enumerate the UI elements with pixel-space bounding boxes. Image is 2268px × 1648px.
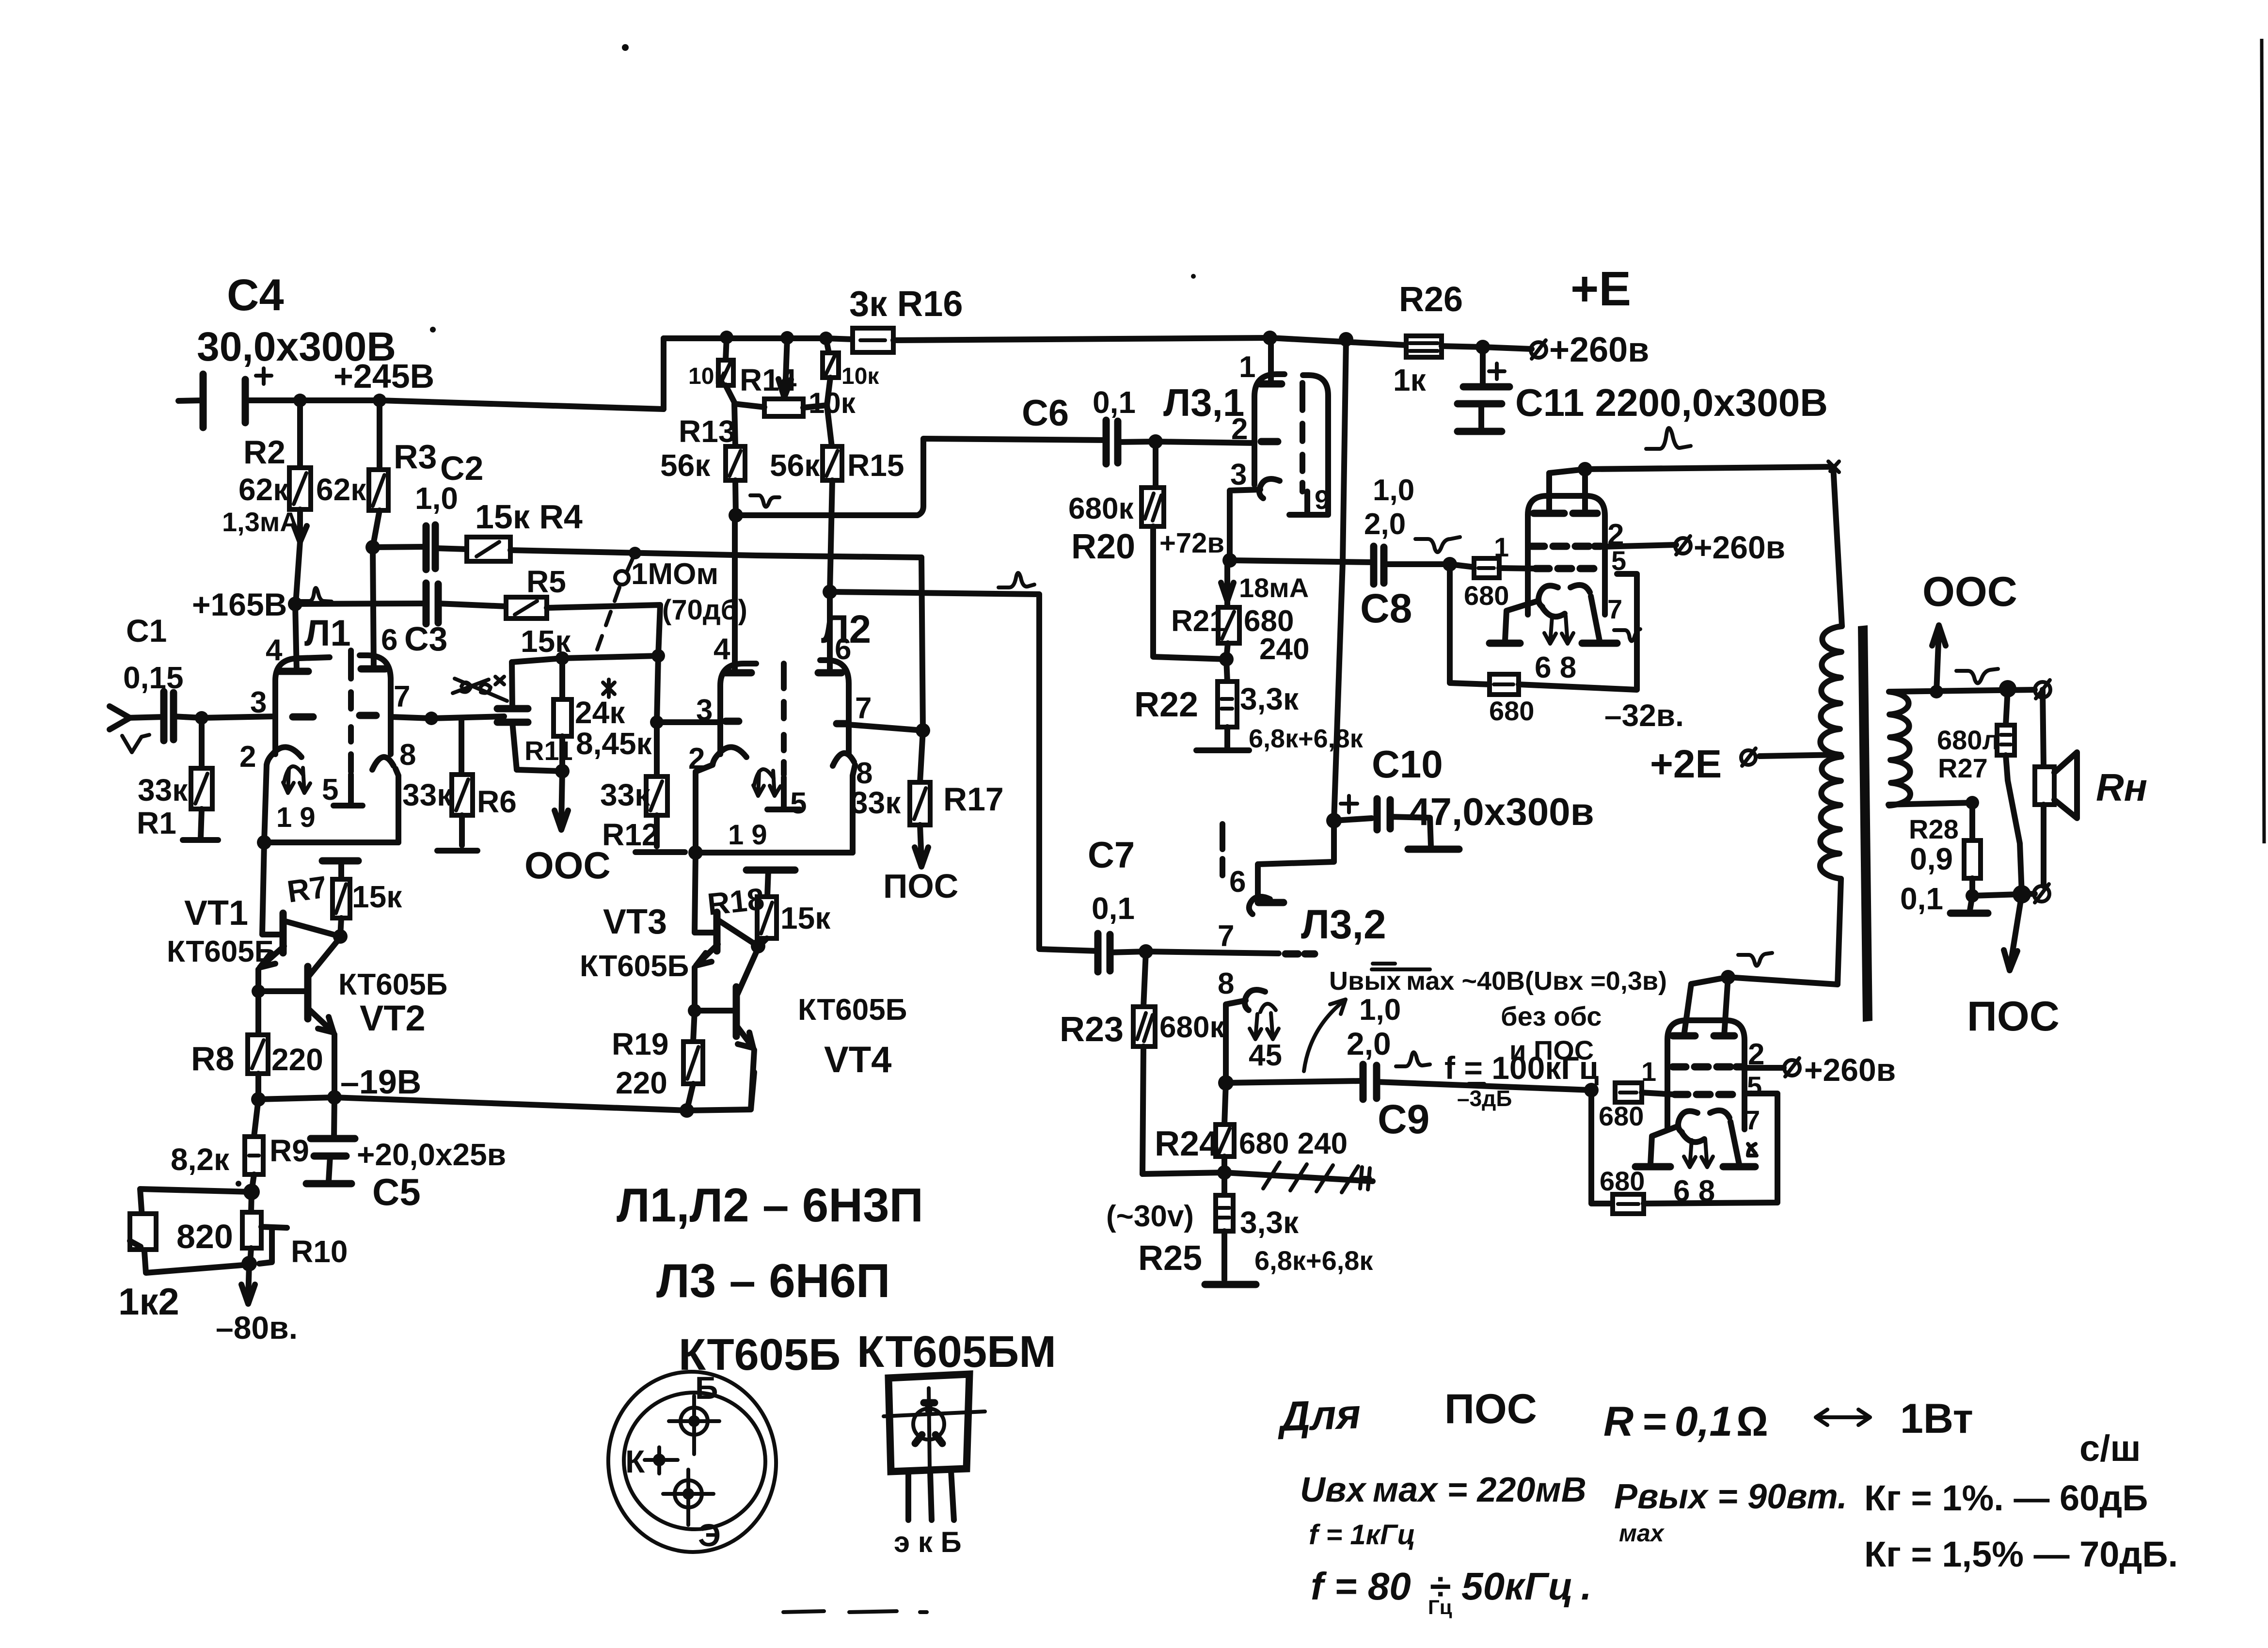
resistor R28 0,9/0,1 — [1900, 803, 1988, 916]
tube L1 cathode pin2 hook — [267, 747, 301, 765]
svg-text:Л3,2: Л3,2 — [1301, 902, 1386, 947]
output tube 2 screen grid dashed — [1673, 1063, 1742, 1071]
svg-text:э к Б: э к Б — [894, 1526, 962, 1558]
tube L1 anode plate pin6 — [361, 666, 385, 673]
node +72V — [1159, 527, 1374, 568]
svg-text:1,0: 1,0 — [1373, 474, 1414, 507]
KT605B package drawing (TO-case bottom view) — [602, 1330, 841, 1558]
wire anode supply row — [664, 338, 853, 339]
svg-text:R23: R23 — [1060, 1010, 1124, 1049]
resistor R27 680 — [1937, 689, 2022, 893]
svg-text:+E: +E — [1570, 262, 1631, 316]
OOC arrow up — [1922, 569, 2017, 692]
svg-text:R9: R9 — [270, 1133, 309, 1168]
OOC arrow from R11 — [524, 771, 611, 887]
waveform pulse mark — [999, 573, 1034, 587]
tube L2 pin5 internal shield — [767, 777, 800, 809]
svg-text:R12: R12 — [602, 817, 659, 852]
transformer primary lower lead — [1838, 879, 1841, 984]
svg-text:7: 7 — [1607, 594, 1622, 624]
capacitor C4 plates — [203, 374, 245, 428]
capacitor C9 1,0/2,0 — [1226, 993, 1591, 1142]
svg-text:220: 220 — [616, 1065, 667, 1100]
equalizer box top wire — [512, 656, 658, 662]
svg-text:VT3: VT3 — [603, 903, 667, 941]
tube L2 cathode pin2 hook — [713, 747, 746, 765]
tube L2 anode plate pin4 — [724, 669, 751, 677]
svg-text:R7: R7 — [285, 869, 329, 909]
capacitor C8 1,0/2,0 — [1360, 474, 1457, 631]
wire +245V rail — [245, 400, 664, 409]
pin B circle — [681, 1408, 708, 1435]
svg-text:ПОС: ПОС — [1967, 993, 2060, 1040]
tube L1 grid pin3 dash — [293, 713, 313, 721]
svg-text:–3дБ: –3дБ — [1457, 1086, 1512, 1111]
svg-text:R26: R26 — [1399, 280, 1463, 319]
svg-text:1,0: 1,0 — [415, 481, 458, 516]
input arrow terminal — [110, 706, 164, 752]
svg-text:24к: 24к — [575, 695, 625, 730]
svg-text:680: 680 — [1599, 1101, 1644, 1131]
svg-text:+2E: +2E — [1650, 742, 1722, 786]
svg-text:4: 4 — [714, 633, 730, 666]
annotation Pout — [1614, 1477, 1847, 1547]
svg-text:33к: 33к — [851, 785, 901, 820]
svg-text:КТ605Б: КТ605Б — [580, 950, 689, 983]
wire -19V rail — [251, 1063, 754, 1118]
pin E circle — [675, 1480, 702, 1507]
tube L3.2 heater dashes — [1220, 824, 1225, 875]
resistor R5 15k — [506, 564, 665, 776]
svg-text:Л1,Л2 – 6Н3П: Л1,Л2 – 6Н3П — [617, 1178, 923, 1232]
capacitor C2 1,0 — [373, 449, 483, 570]
svg-text:Pвых = 90вт.: Pвых = 90вт. — [1614, 1477, 1847, 1516]
svg-text:680к: 680к — [1068, 492, 1134, 525]
label tube types — [617, 1178, 923, 1307]
svg-text:C10: C10 — [1372, 743, 1443, 786]
svg-text:8,2к: 8,2к — [171, 1142, 230, 1177]
svg-text:C6: C6 — [1022, 393, 1069, 434]
output tube 1 (upper) envelope — [1490, 469, 1640, 684]
waveform check mark near C8 — [1415, 537, 1460, 552]
wire R16 to R26 — [893, 338, 1406, 345]
tube L3.1 cathode pin3 hook — [1259, 479, 1280, 498]
svg-text:R10: R10 — [291, 1234, 348, 1269]
svg-text:Э: Э — [698, 1517, 721, 1553]
svg-text:10к: 10к — [809, 387, 856, 419]
wire R4 output to L2 grid7 — [921, 557, 923, 730]
svg-text:680к: 680к — [1159, 1011, 1225, 1044]
tube L3.2 grid pin7 wire — [1146, 919, 1315, 954]
tube L1 cathode bottom wire — [264, 840, 398, 845]
svg-text:R13: R13 — [679, 414, 735, 449]
svg-text:1,0: 1,0 — [1359, 993, 1401, 1027]
svg-text:f = 100кГц: f = 100кГц — [1444, 1050, 1599, 1086]
svg-text:без обс: без обс — [1501, 1001, 1602, 1031]
svg-text:R14: R14 — [740, 363, 797, 397]
tube L1 grid pin7 dash — [360, 712, 376, 719]
svg-text:1к2: 1к2 — [118, 1280, 179, 1323]
svg-text:2: 2 — [1231, 412, 1248, 446]
transistor VT3 KT605B — [580, 853, 758, 1011]
capacitor C1 0,15 — [123, 613, 275, 741]
svg-text:62к: 62к — [238, 472, 289, 507]
svg-text:1: 1 — [1641, 1056, 1656, 1087]
capacitor C3' (star) — [497, 662, 528, 770]
svg-text:Uвх мах = 220мВ: Uвх мах = 220мВ — [1300, 1471, 1586, 1509]
tube L2 grid pin7 — [837, 720, 847, 728]
svg-text:Л3 – 6Н6П: Л3 – 6Н6П — [656, 1254, 890, 1307]
svg-text:5: 5 — [1747, 1071, 1762, 1101]
wire output tube 2 anodes to transformer — [1691, 953, 1838, 984]
svg-text:2,0: 2,0 — [1347, 1026, 1391, 1062]
capacitor C5 20,0x25v — [306, 1097, 506, 1213]
svg-text:R22: R22 — [1134, 685, 1198, 724]
svg-text:–19В: –19В — [340, 1063, 421, 1101]
svg-text:3: 3 — [1230, 458, 1247, 491]
svg-text:R8: R8 — [191, 1040, 234, 1078]
svg-text:R21: R21 — [1171, 604, 1226, 638]
speaker Rn — [2035, 690, 2147, 886]
resistor R20 680k — [1068, 442, 1226, 659]
wire output tube 1 pin2 to +260V — [1601, 529, 1785, 565]
tube L1 center dashed line — [348, 650, 354, 772]
tube L3.2 anode plate pin6 — [1222, 824, 1386, 947]
svg-text:6: 6 — [1229, 865, 1246, 899]
svg-text:Кг = 1%. — 60дБ: Кг = 1%. — 60дБ — [1864, 1478, 2148, 1518]
output tube 1 cathode leads to feet — [1505, 596, 1600, 641]
svg-text:R11: R11 — [524, 735, 573, 766]
svg-text:15к R4: 15к R4 — [475, 498, 583, 536]
svg-text:Для: Для — [1276, 1391, 1361, 1440]
svg-text:220: 220 — [271, 1042, 323, 1077]
tube L3.1 pin9 heater foot — [1289, 491, 1327, 515]
resistor R21 680/240 with current arrow — [1171, 562, 1309, 666]
svg-text:15к: 15к — [780, 901, 831, 935]
svg-text:C11 2200,0x300В: C11 2200,0x300В — [1515, 381, 1828, 424]
wire secondary bottom row — [1888, 796, 1979, 809]
capacitor C4 plus sign — [256, 368, 271, 384]
resistor R10 820 with selection box — [241, 1192, 348, 1304]
resistor R2 62k — [222, 400, 311, 604]
annotation frequency range — [1311, 1565, 1592, 1618]
resistor R23 680k — [1060, 951, 1225, 1174]
svg-text:КТ605Б: КТ605Б — [338, 968, 447, 1001]
output tube 1 cathode hooks — [1538, 586, 1558, 607]
svg-text:1Вт: 1Вт — [1900, 1395, 1973, 1442]
POS arrow down — [1967, 894, 2060, 1040]
svg-text:R27: R27 — [1938, 753, 1988, 783]
svg-text:C7: C7 — [1088, 835, 1135, 876]
svg-text:33к: 33к — [402, 777, 453, 812]
node dot — [293, 394, 307, 407]
svg-text:C4: C4 — [227, 270, 284, 320]
wire L2 anode4 to C6 — [729, 439, 1106, 523]
feedback box output tube 1 — [1450, 564, 1637, 726]
svg-text:6: 6 — [381, 623, 397, 657]
svg-text:3,3к: 3,3к — [1240, 1205, 1299, 1240]
svg-text:R3: R3 — [394, 438, 437, 475]
resistor 10k upper right — [809, 338, 879, 419]
svg-text:820: 820 — [176, 1218, 233, 1255]
svg-text:4: 4 — [266, 634, 283, 667]
resistor R15 56k — [770, 405, 904, 592]
svg-text:8: 8 — [399, 738, 416, 772]
svg-text:0,1: 0,1 — [1900, 881, 1943, 916]
svg-text:3к R16: 3к R16 — [849, 284, 963, 324]
svg-text:R1: R1 — [137, 806, 176, 840]
resistor R24 680/240 — [1155, 1083, 1348, 1180]
capacitor C3 — [404, 583, 506, 658]
svg-text:VT1: VT1 — [184, 894, 248, 933]
annotation Uin max — [1300, 1471, 1586, 1551]
tube L3.1 (6N6P) envelope — [1163, 338, 1330, 560]
KT605BM package drawing — [857, 1327, 1056, 1558]
svg-text:680л: 680л — [1937, 725, 1999, 755]
resistor R26 1k — [1393, 280, 1490, 397]
resistor 680 grid stopper upper — [1450, 532, 1536, 611]
annotation f=100kHz — [1444, 1050, 1599, 1111]
tube L1 pin5 internal shield — [333, 775, 363, 806]
tube L3.2 heater arrows pins 4 5 — [1249, 1004, 1282, 1072]
svg-text:VT4: VT4 — [824, 1039, 891, 1080]
resistor R11 24k/8,45k — [524, 651, 652, 778]
output tube 2 (lower) envelope — [1635, 977, 1764, 1208]
svg-text:680: 680 — [1464, 580, 1509, 611]
svg-text:10к: 10к — [841, 364, 879, 389]
resistor R12 33k — [600, 722, 685, 852]
svg-text:3: 3 — [696, 694, 713, 727]
resistor R8 220 — [191, 991, 323, 1099]
svg-text:8: 8 — [1218, 967, 1234, 1000]
svg-text:R20: R20 — [1071, 527, 1135, 566]
svg-text:1 9: 1 9 — [276, 802, 316, 833]
svg-text:56к: 56к — [770, 448, 820, 483]
transistor VT2 KT605B — [252, 937, 447, 1097]
svg-text:6,8к+6,8к: 6,8к+6,8к — [1249, 724, 1364, 753]
svg-text:15к: 15к — [352, 879, 402, 914]
svg-text:ООС: ООС — [1922, 569, 2017, 615]
capacitor C10 47,0x300V — [1326, 743, 1594, 849]
tube L2 grid pin3 — [657, 719, 720, 725]
svg-text:КТ605БМ: КТ605БМ — [857, 1327, 1056, 1377]
svg-text:1МОм: 1МОм — [631, 557, 718, 591]
svg-text:(~30v): (~30v) — [1106, 1200, 1194, 1233]
svg-text:R18: R18 — [706, 881, 766, 922]
svg-text:+245В: +245В — [333, 357, 434, 395]
tube L1 cathode pin8 hook — [372, 757, 394, 770]
svg-text:7: 7 — [394, 680, 410, 713]
waveform check mark secondary — [1956, 669, 1998, 683]
waveform check mark under R13 — [750, 495, 779, 507]
svg-text:КТ605Б: КТ605Б — [798, 993, 907, 1027]
resistor R22 3,3k — [1134, 659, 1364, 753]
input waveform mark — [122, 735, 149, 752]
tube L2 anode plate pin6 — [818, 669, 841, 677]
terminal +260V main — [1483, 262, 1649, 369]
scan edge artifact line — [2262, 39, 2264, 843]
svg-text:56к: 56к — [660, 448, 711, 483]
svg-text:62к: 62к — [316, 472, 366, 507]
output tube 2 cathode hooks — [1678, 1111, 1697, 1132]
transformer secondary winding — [1889, 692, 1910, 806]
svg-text:Rн: Rн — [2096, 766, 2147, 809]
svg-text:0,9: 0,9 — [1910, 841, 1953, 876]
svg-text:7: 7 — [1745, 1105, 1760, 1135]
svg-text:–80в.: –80в. — [216, 1310, 298, 1346]
resistor R18 15k — [706, 870, 831, 953]
svg-text:КТ605Б: КТ605Б — [167, 935, 276, 968]
transformer primary winding upper — [1820, 626, 1842, 755]
potentiometer 1MOm (70db) dashed — [597, 547, 747, 650]
svg-text:+260в: +260в — [1694, 529, 1785, 565]
svg-text:1: 1 — [1494, 532, 1509, 562]
svg-text:5: 5 — [790, 787, 807, 820]
svg-text:240: 240 — [1259, 633, 1309, 666]
tube L1 anode plate pin4 — [278, 668, 308, 675]
potentiometer R14 body — [734, 399, 827, 416]
resistor R9 8,2k — [171, 1099, 309, 1200]
tube L2 cathode pin8 hook — [833, 753, 854, 766]
svg-text:R2: R2 — [243, 434, 285, 471]
svg-text:R24: R24 — [1155, 1125, 1219, 1163]
resistor R1 33k — [137, 718, 218, 840]
svg-text:+72в: +72в — [1159, 527, 1224, 559]
tube L1 heater loop with arrows — [284, 766, 303, 782]
transformer core bar — [1858, 625, 1872, 1022]
svg-text:f = 1кГц: f = 1кГц — [1309, 1519, 1415, 1551]
svg-text:6,8к+6,8к: 6,8к+6,8к — [1254, 1245, 1373, 1276]
transformer primary winding lower — [1820, 757, 1841, 879]
annotation Uout max — [1304, 964, 1667, 1071]
output tube 1 screen grid dashed — [1531, 543, 1601, 550]
node: +165V — [192, 586, 426, 622]
svg-text:ПОС: ПОС — [883, 867, 958, 905]
svg-text:VT2: VT2 — [360, 998, 426, 1038]
svg-text:+20,0x25в: +20,0x25в — [357, 1137, 506, 1172]
capacitor C4 lead left — [178, 400, 203, 401]
svg-text:47,0x300в: 47,0x300в — [1409, 790, 1594, 833]
svg-text:5: 5 — [322, 773, 338, 807]
svg-text:2: 2 — [239, 740, 256, 774]
resistor 680 grid stopper lower — [1584, 1056, 1675, 1131]
svg-text:Кг = 1,5% — 70дБ.: Кг = 1,5% — 70дБ. — [1864, 1534, 2178, 1574]
svg-text:–32в.: –32в. — [1604, 698, 1684, 733]
svg-text:R25: R25 — [1138, 1239, 1202, 1278]
svg-text:R6: R6 — [477, 784, 517, 819]
output tube 1 top electrode bars — [1534, 510, 1597, 517]
svg-text:45: 45 — [1249, 1039, 1282, 1072]
svg-text:R17: R17 — [943, 781, 1004, 818]
resistor R6 33k — [391, 712, 517, 851]
svg-text:Л1: Л1 — [304, 613, 351, 654]
transformer primary center tap +2E — [1650, 742, 1840, 786]
node dot — [373, 394, 386, 407]
pin K with dot — [653, 1454, 666, 1466]
crossed-out cap label X10 — [453, 677, 507, 701]
svg-text:0,15: 0,15 — [123, 660, 184, 695]
node: +245V rail from C4 — [178, 270, 664, 428]
output tube 2 control grid dashed — [1675, 1091, 1732, 1098]
transistor VT1 KT605B — [167, 842, 340, 991]
svg-text:7: 7 — [855, 692, 872, 725]
svg-text:C1: C1 — [126, 613, 167, 649]
wire output tube 2 pin2 to +260V — [1745, 1052, 1896, 1088]
svg-text:680: 680 — [1600, 1166, 1645, 1196]
tube L1 (6N3P) envelope — [239, 547, 416, 850]
capacitor C7 0,1 — [1088, 835, 1153, 972]
wire +245V up to R16 row — [661, 338, 666, 409]
resistor R7 15k — [285, 861, 402, 944]
svg-text:ООС: ООС — [524, 844, 611, 887]
waveform pulse mark near C11 — [1646, 428, 1691, 449]
svg-text:R5: R5 — [526, 564, 566, 599]
svg-text:8,45к: 8,45к — [576, 726, 652, 761]
svg-text:18мА: 18мА — [1239, 572, 1309, 603]
wire bottom row to speaker terminal — [1972, 884, 2049, 903]
svg-text:с/ш: с/ш — [2079, 1428, 2141, 1469]
output tube 1 anode/screen leads up — [1549, 469, 1585, 513]
feedback box output tube 2 — [1591, 1090, 1777, 1214]
resistor R19 220 — [612, 1011, 703, 1110]
svg-text:Гц: Гц — [1428, 1596, 1452, 1618]
svg-text:6: 6 — [835, 633, 851, 666]
svg-text:R28: R28 — [1909, 814, 1959, 844]
svg-text:ПОС: ПОС — [1444, 1386, 1537, 1432]
resistor R4 15k — [467, 498, 921, 561]
svg-text:R19: R19 — [612, 1027, 668, 1062]
svg-text:33к: 33к — [600, 777, 650, 812]
svg-text:2,0: 2,0 — [1364, 507, 1406, 541]
svg-text:3,3к: 3,3к — [1240, 681, 1299, 716]
svg-text:C8: C8 — [1360, 586, 1412, 631]
svg-text:R15: R15 — [847, 448, 904, 483]
resistor R25 3,3k — [1138, 1173, 1373, 1284]
svg-text:3: 3 — [250, 686, 267, 719]
tube L3.2 cathode pin8 hook — [1218, 967, 1265, 1091]
svg-text:Б: Б — [695, 1370, 718, 1406]
wire secondary top row — [1889, 680, 2050, 698]
svg-text:9: 9 — [1315, 484, 1330, 515]
svg-text:680 240: 680 240 — [1239, 1127, 1348, 1160]
svg-text:2: 2 — [688, 742, 705, 776]
svg-text:C5: C5 — [372, 1171, 421, 1213]
scanner specks — [236, 44, 1196, 1612]
svg-text:+260в: +260в — [1549, 331, 1649, 369]
svg-text:7: 7 — [1218, 919, 1234, 953]
capacitor C11 2200x300V electrolytic — [1458, 347, 1828, 431]
svg-text:+165В: +165В — [192, 586, 287, 622]
svg-text:0,1: 0,1 — [1093, 385, 1136, 420]
tube L2 cathode bottom wire — [696, 850, 853, 856]
svg-text:10к: 10к — [688, 364, 726, 389]
svg-text:C9: C9 — [1378, 1096, 1429, 1142]
svg-text:мах: мах — [1619, 1520, 1665, 1547]
tube L2 (6N3P) envelope — [657, 515, 930, 860]
potentiometer R14 wiper arrow — [740, 338, 797, 397]
resistor R13 56k — [660, 404, 745, 515]
capacitor C6 0,1 — [1022, 385, 1163, 464]
svg-text:К: К — [625, 1443, 645, 1479]
waveform pulse mark — [301, 588, 332, 602]
output tube 1 heater arrows — [1544, 617, 1556, 644]
svg-text:1 9: 1 9 — [728, 819, 767, 851]
waveform pulse mark near C9 — [1396, 1052, 1430, 1066]
resistor R16 3k — [849, 284, 963, 352]
svg-text:1,3мА: 1,3мА — [222, 507, 300, 537]
svg-text:1к: 1к — [1393, 363, 1427, 397]
svg-text:33к: 33к — [138, 773, 188, 808]
